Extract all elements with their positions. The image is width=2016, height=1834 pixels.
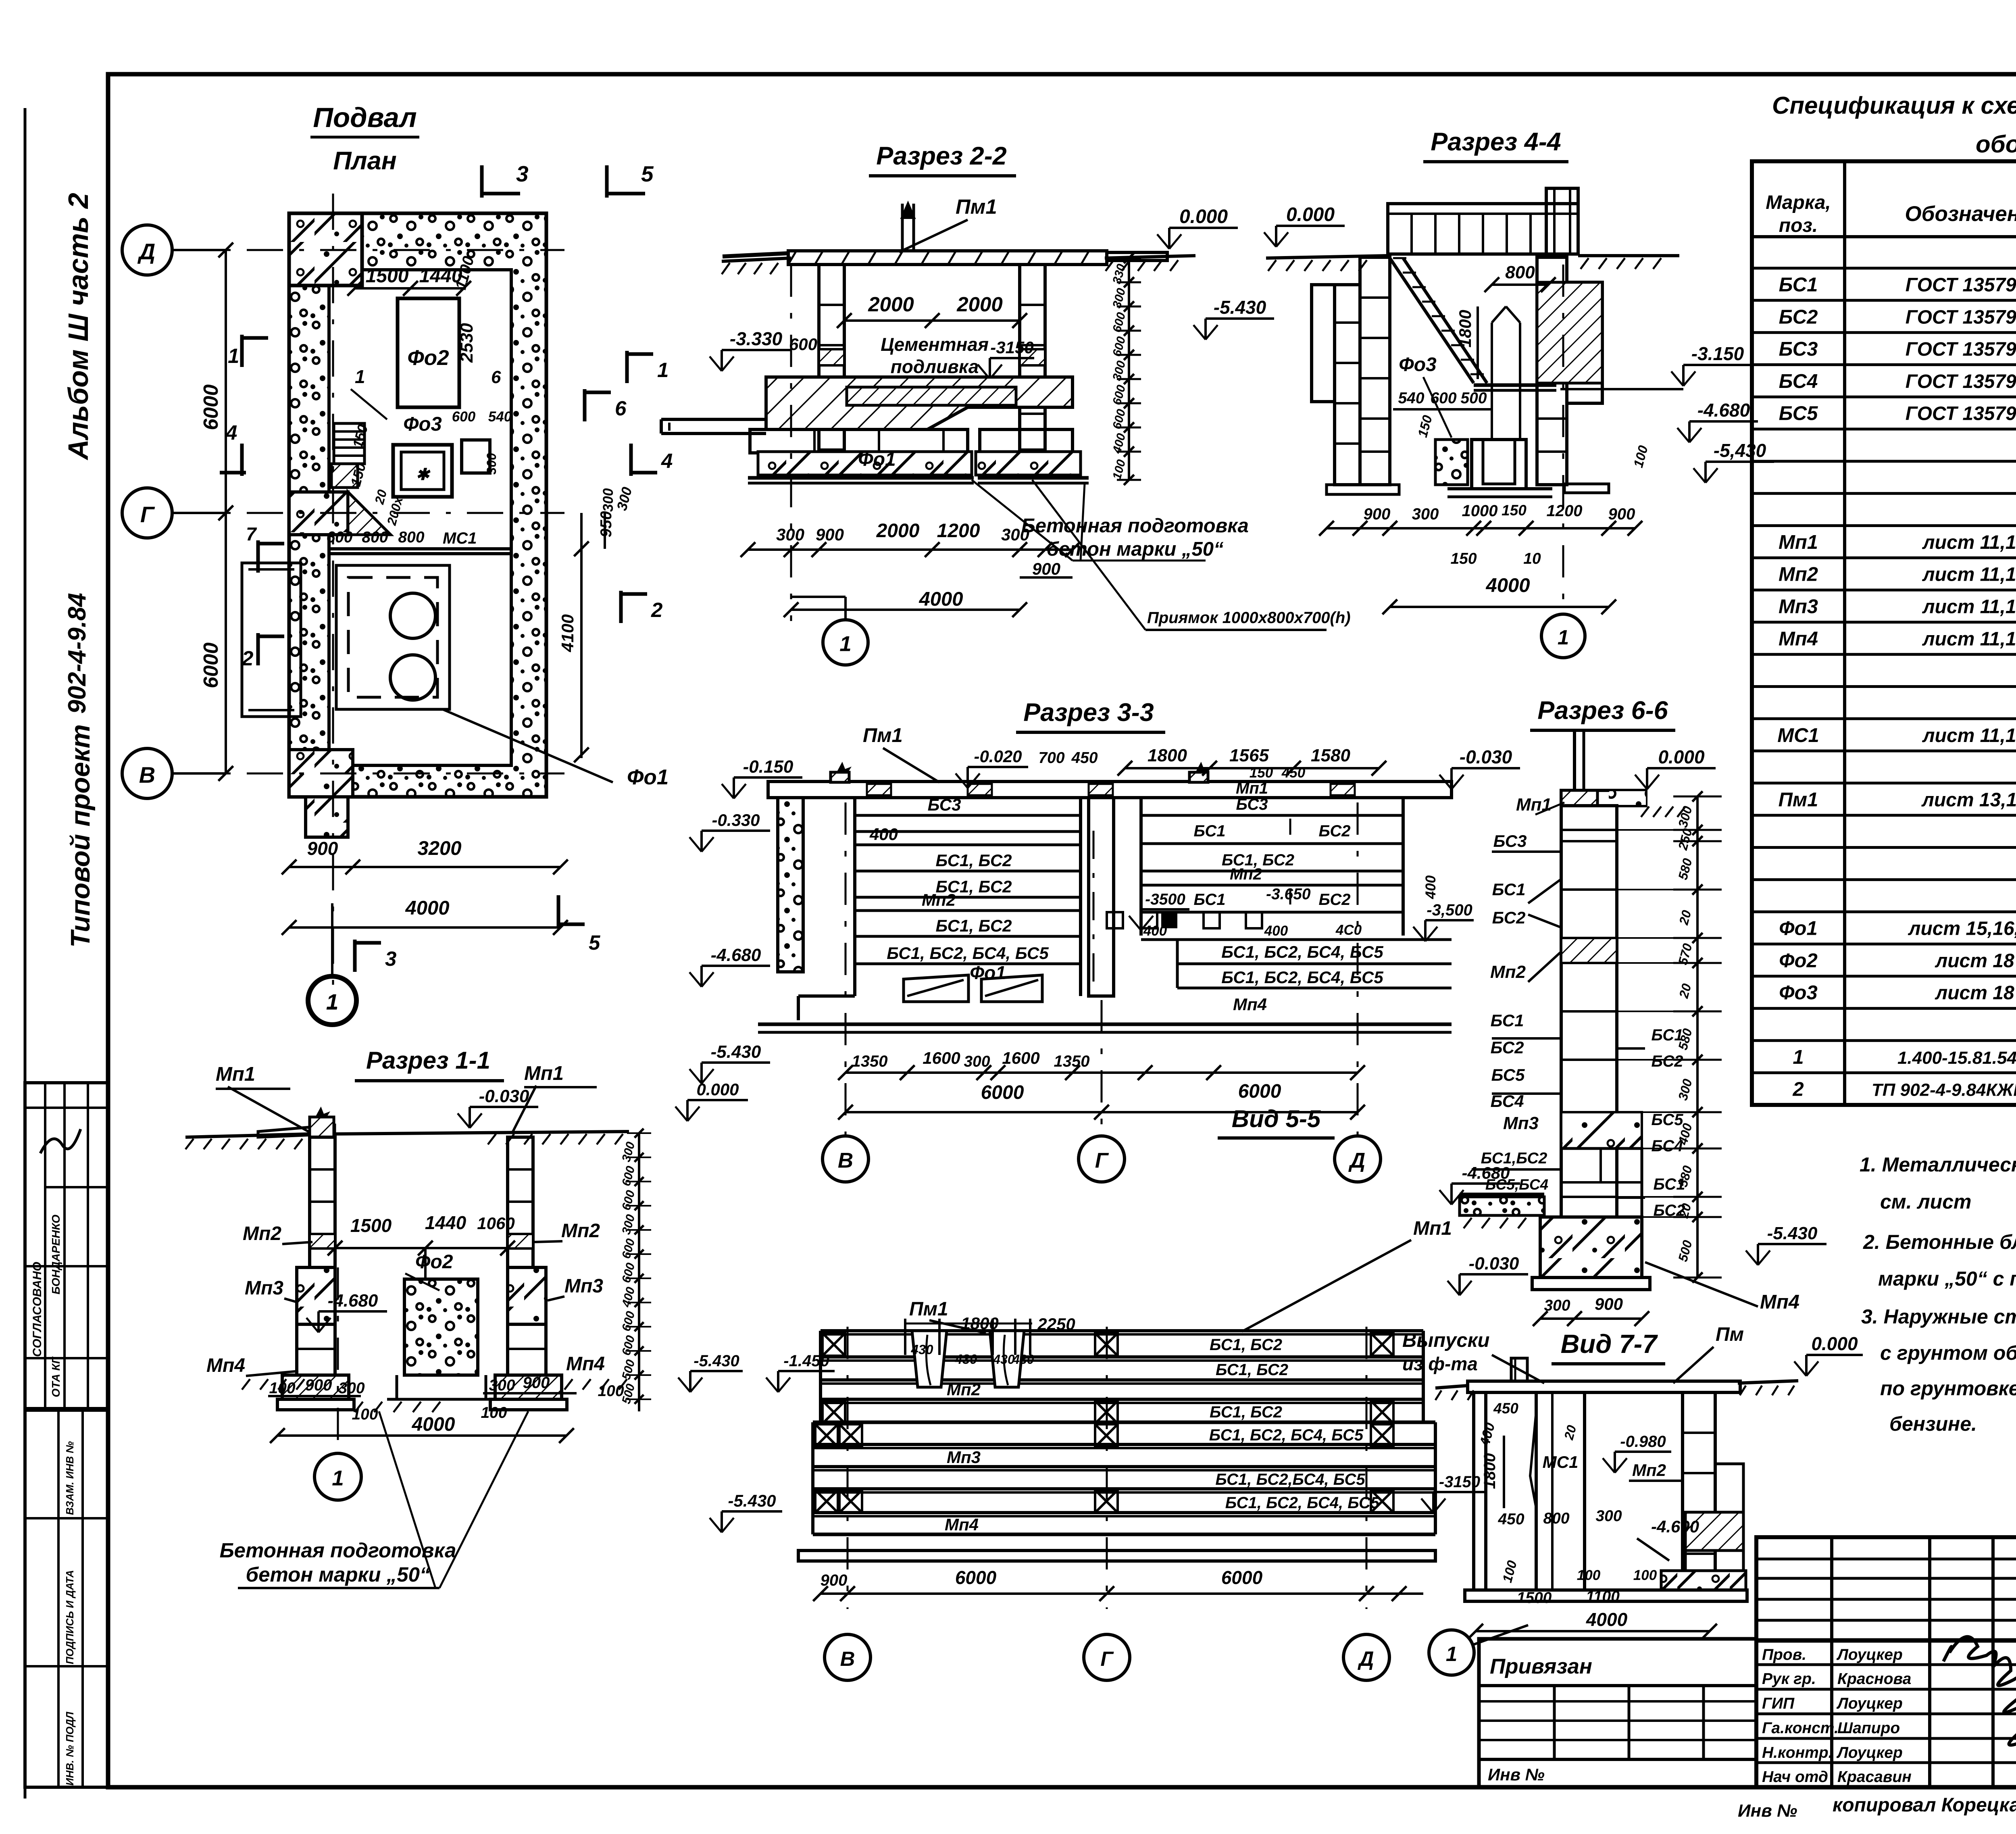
plan: axis bubbles Д Г В [122,225,172,275]
svg-text:450: 450 [1281,765,1306,781]
svg-text:Лоуцкер: Лоуцкер [1836,1744,1903,1761]
svg-text:лист 11,12: лист 11,12 [1922,725,2016,746]
svg-text:МС1: МС1 [443,529,477,547]
svg-text:-5.430: -5.430 [711,1042,761,1062]
svg-text:Мп1: Мп1 [1236,779,1268,797]
svg-text:430: 430 [910,1342,933,1357]
svg-text:600: 600 [789,335,817,354]
section 1-1: lower wall blocks [297,1267,335,1324]
svg-text:450: 450 [1493,1400,1518,1417]
svg-text:БС5,БС4: БС5,БС4 [1485,1176,1548,1193]
svg-text:4000: 4000 [918,588,963,610]
svg-text:800: 800 [362,529,388,546]
svg-text:ПОДПИСЬ И ДАТА: ПОДПИСЬ И ДАТА [64,1570,76,1664]
svg-text:-5.430: -5.430 [728,1491,776,1510]
svg-text:БС1: БС1 [1194,891,1226,909]
svg-text:Выпуски: Выпуски [1402,1330,1490,1351]
svg-text:ГОСТ 13579-78: ГОСТ 13579-78 [1906,339,2016,360]
svg-text:ГОСТ 13579-78: ГОСТ 13579-78 [1906,403,2016,425]
section 4-4: bottom axis bubble [1562,265,1564,615]
view 5-5: bottom slab [798,1551,1435,1561]
svg-text:150: 150 [1450,550,1477,567]
svg-text:950: 950 [598,511,615,537]
spec table grid [1752,161,2016,1105]
svg-text:Мп1: Мп1 [216,1063,255,1085]
svg-text:БС5: БС5 [1779,403,1818,425]
svg-text:4: 4 [225,421,237,444]
svg-text:6: 6 [615,397,627,420]
plan: bottom dims 900 3200 4000 [289,866,560,868]
svg-text:Разрез 6-6: Разрез 6-6 [1537,696,1668,725]
section 6-6: bottom dims [1540,1317,1642,1320]
svg-text:902-4-9.84: 902-4-9.84 [63,593,91,714]
left stamp box (ИНВ/ПОДПИСЬ) [25,1410,108,1787]
spec table first small row: бетонные блоки caption [1752,267,2016,270]
plan: inner cross wall at Г axis [329,547,511,550]
svg-text:Лоуцкер: Лоуцкер [1836,1646,1903,1663]
svg-text:БС3: БС3 [928,795,961,814]
svg-text:1: 1 [228,344,239,367]
svg-text:Мп2: Мп2 [1779,564,1818,586]
svg-text:Красавин: Красавин [1837,1768,1912,1786]
svg-text:Нач отд: Нач отд [1762,1768,1828,1786]
svg-text:600: 600 [452,409,476,425]
svg-text:Мп4: Мп4 [1760,1291,1799,1313]
svg-text:Г: Г [1100,1647,1114,1670]
svg-text:Марка,: Марка, [1766,192,1831,213]
section 3-3: right room rows [1139,798,1143,936]
svg-text:-3.650: -3.650 [1266,886,1311,903]
svg-text:Мп4: Мп4 [945,1515,979,1534]
svg-text:✱: ✱ [416,466,431,484]
section 1-1: bottom axis bubble [337,1267,339,1454]
svg-text:-0.330: -0.330 [712,811,760,829]
svg-text:-0.150: -0.150 [743,757,793,777]
plan: axis Д pier (hatched) [289,492,348,535]
svg-text:1600: 1600 [923,1048,960,1067]
svg-text:2000: 2000 [868,293,914,316]
svg-text:по грунтовке холодным биту: по грунтовке холодным битумом, разведенн… [1880,1377,2016,1400]
view 5-5: band rows (upper, x2035-3530) [821,1329,1423,1332]
section 4-4: ground lines [1266,256,1388,258]
svg-text:900: 900 [307,838,338,859]
section 6-6: hatched bands [1561,938,1617,963]
svg-text:900: 900 [821,1571,848,1589]
svg-text:100: 100 [269,1380,295,1397]
svg-text:0.000: 0.000 [696,1080,739,1099]
section 4-4: walls [1360,257,1390,485]
svg-text:МС1: МС1 [1543,1453,1579,1471]
svg-text:БС3: БС3 [1236,796,1268,813]
svg-text:1: 1 [355,366,365,387]
svg-text:Мп1: Мп1 [1779,531,1818,553]
svg-text:1: 1 [326,990,338,1014]
section 6-6: foundation block [1540,1217,1642,1278]
section 6-6: left floor stub [1460,1193,1544,1196]
plan: section marks [480,165,484,198]
svg-text:Разрез 4-4: Разрез 4-4 [1431,128,1561,156]
svg-text:с грунтом обмазать горячим: с грунтом обмазать горячим битумом за 2 … [1880,1342,2016,1364]
section 3-3: central pier [1089,798,1114,996]
svg-text:ГОСТ 13579-78: ГОСТ 13579-78 [1906,306,2016,328]
svg-text:1800: 1800 [1481,1453,1499,1489]
svg-text:БС4: БС4 [1779,371,1818,392]
svg-text:План: План [333,147,397,175]
svg-text:1600: 1600 [1002,1048,1039,1067]
svg-text:БС1, БС2, БС4, БС5: БС1, БС2, БС4, БС5 [1221,942,1383,961]
svg-text:900: 900 [1608,505,1635,523]
view 7-7: right stepped blocks [1715,1464,1743,1512]
svg-text:800: 800 [1505,263,1535,282]
section 1-1: ground line [185,1134,310,1137]
svg-text:1350: 1350 [1054,1052,1090,1070]
section 4-4: top slab with ribs [1388,204,1578,254]
section 6-6: right dim chain [1696,796,1699,1278]
svg-text:БС1, БС2, БС4, БС5: БС1, БС2, БС4, БС5 [887,944,1049,963]
svg-text:лист 11,12: лист 11,12 [1922,532,2016,553]
svg-text:Мп3: Мп3 [1779,596,1818,618]
svg-text:300: 300 [338,1380,364,1397]
svg-text:4000: 4000 [405,897,449,919]
svg-text:Мп2: Мп2 [1230,865,1262,883]
svg-text:БС1: БС1 [1779,274,1818,296]
svg-text:450: 450 [1071,749,1098,767]
svg-text:-0.030: -0.030 [1460,746,1512,767]
svg-text:Обозначение: Обозначение [1905,202,2016,226]
section 2-2: dims 2000 2000 [844,319,1020,322]
svg-text:540: 540 [488,409,512,425]
svg-text:-0.030: -0.030 [479,1086,529,1106]
view 7-7: bottom dim 4000 [1476,1630,1710,1632]
svg-text:150: 150 [1250,765,1273,781]
svg-text:Га.конст.: Га.конст. [1762,1719,1839,1737]
svg-text:БС1, БС2,БС4, БС5: БС1, БС2,БС4, БС5 [1215,1471,1365,1488]
svg-text:1350: 1350 [852,1052,888,1070]
svg-text:400: 400 [869,825,898,844]
svg-text:Фо2: Фо2 [407,346,449,370]
view 5-5: bottom dims [821,1592,1423,1595]
view 7-7: walls [1474,1392,1486,1590]
svg-text:1: 1 [839,632,851,656]
svg-text:из ф-та: из ф-та [1402,1353,1478,1374]
svg-text:см. лист: см. лист [1880,1190,1972,1213]
view 7-7: bottom slab [1465,1590,1747,1601]
svg-text:бензине.: бензине. [1889,1413,1977,1435]
svg-text:1800: 1800 [1148,746,1187,765]
svg-text:Фо3: Фо3 [1399,354,1437,375]
svg-text:Разрез 3-3: Разрез 3-3 [1023,698,1154,727]
svg-text:Мп4: Мп4 [1779,628,1818,650]
plan: vertical dimension 6000 x2 [225,250,227,773]
svg-text:2: 2 [651,598,662,621]
section 2-2: foundation mass [766,377,1073,429]
svg-text:лист 18: лист 18 [1935,982,2014,1004]
section 3-3: left room block rows [853,798,856,996]
svg-text:Подвал: Подвал [313,102,417,133]
svg-text:В: В [139,762,155,788]
section 4-4: diagonal shaft [1390,258,1474,383]
svg-text:Фо1: Фо1 [1779,918,1817,940]
svg-text:Привязан: Привязан [1490,1655,1592,1678]
svg-text:СОГЛАСОВАНО: СОГЛАСОВАНО [31,1262,44,1357]
svg-text:100: 100 [481,1404,507,1421]
section 4-4: inner pit [1474,383,1556,387]
svg-text:900: 900 [305,1376,332,1394]
svg-text:ВЗАМ. ИНВ №: ВЗАМ. ИНВ № [64,1441,76,1515]
svg-text:1580: 1580 [1311,746,1350,765]
svg-text:-5,430: -5,430 [1714,440,1766,461]
svg-text:6000: 6000 [199,642,222,688]
svg-text:900: 900 [523,1374,550,1392]
svg-text:Краснова: Краснова [1837,1670,1911,1688]
svg-text:-0.020: -0.020 [974,747,1022,766]
svg-text:БС1, БС2: БС1, БС2 [935,851,1012,870]
svg-text:800: 800 [1543,1510,1569,1527]
svg-text:5: 5 [589,931,600,954]
svg-text:лист 18: лист 18 [1935,950,2014,971]
svg-text:В: В [838,1149,853,1173]
left stamp box (СОГЛАСОВАНО) [25,1083,108,1409]
svg-text:Мп4: Мп4 [206,1355,245,1376]
svg-text:Разрез 1-1: Разрез 1-1 [366,1047,490,1074]
svg-text:ГОСТ 13579-78: ГОСТ 13579-78 [1906,371,2016,392]
plan: section mark 1 left [240,335,244,367]
svg-text:1. Металлическое ограждение,: 1. Металлическое ограждение, площадку и … [1860,1153,2016,1176]
svg-text:Мп1: Мп1 [524,1063,564,1084]
svg-text:Мп3: Мп3 [1503,1113,1539,1133]
plan: bottom axis bubble 1 [307,975,357,1025]
svg-text:-0.030: -0.030 [1469,1254,1519,1273]
svg-text:10: 10 [1523,550,1541,567]
svg-text:Мп3: Мп3 [564,1275,603,1297]
svg-text:Лоуцкер: Лоуцкер [1836,1695,1903,1712]
section 1-1: top plate [258,1125,335,1137]
section 1-1: bottom dims [268,1395,361,1397]
svg-text:Пм1: Пм1 [956,195,997,218]
svg-text:0.000: 0.000 [1811,1333,1858,1354]
привязан sub-table [1479,1639,1756,1787]
svg-text:Д: Д [1348,1149,1365,1173]
svg-text:1500: 1500 [1517,1589,1552,1607]
svg-text:-1.450: -1.450 [783,1352,829,1370]
svg-text:ОТА КГ: ОТА КГ [50,1356,62,1397]
svg-text:Мп4: Мп4 [566,1353,605,1375]
svg-text:400: 400 [1264,923,1288,939]
svg-text:500: 500 [1460,390,1487,407]
svg-text:ТП 902-4-9.84КЖИ. ЩМ2: ТП 902-4-9.84КЖИ. ЩМ2 [1872,1080,2016,1100]
svg-text:1800: 1800 [1456,310,1475,347]
svg-text:-5.430: -5.430 [694,1352,739,1370]
svg-text:Фо3: Фо3 [403,413,442,435]
svg-text:Приямок 1000х800х700(h): Приямок 1000х800х700(h) [1147,609,1351,627]
svg-text:600: 600 [1430,390,1456,407]
section 3-3: right lower rows [1177,938,1452,941]
svg-text:Фо1: Фо1 [858,449,896,470]
section 3-3: top slab [768,782,1452,798]
section 1-1: right wall column [508,1137,533,1267]
svg-text:150: 150 [1502,502,1527,519]
view 5-5: band rows (lower, wider x2016-3560) [813,1421,1435,1424]
svg-text:БС1: БС1 [1491,1011,1524,1030]
section 3-3: bottom slab [758,1023,1452,1026]
svg-text:0.000: 0.000 [1658,746,1705,767]
svg-text:100: 100 [1633,1567,1657,1583]
svg-text:1200: 1200 [1547,502,1583,520]
svg-text:4: 4 [661,449,673,472]
svg-text:700: 700 [1038,749,1064,767]
section 3-3: left wall [778,798,803,972]
svg-text:БС1, БС2: БС1, БС2 [1210,1403,1282,1421]
svg-text:Мп2: Мп2 [561,1220,600,1242]
svg-text:1565: 1565 [1229,746,1269,765]
section 4-4: left outer blocks [1335,285,1360,485]
svg-text:Фо2: Фо2 [1779,950,1817,971]
view 5-5: axis bubbles [825,1634,871,1680]
section 1-1: left wall column [310,1137,335,1267]
svg-text:БС2: БС2 [1779,306,1818,328]
svg-text:6: 6 [491,367,501,387]
svg-text:1: 1 [332,1467,344,1490]
svg-text:4000: 4000 [1485,575,1530,596]
svg-text:800: 800 [398,529,424,546]
svg-text:БС2: БС2 [1319,822,1351,840]
section 1-1: footing pads [282,1375,349,1399]
svg-text:6000: 6000 [981,1082,1024,1103]
section 6-6: lower wider blocks [1561,1148,1642,1217]
svg-text:Мп3: Мп3 [245,1278,283,1299]
svg-text:1: 1 [1446,1642,1457,1665]
svg-text:марки „50“ с перевязкой шво: марки „50“ с перевязкой швов не менее 30… [1878,1267,2016,1290]
svg-text:3. Наружные стены подвала и пр: 3. Наружные стены подвала и приямка, соп… [1861,1305,2016,1328]
svg-text:1060: 1060 [477,1214,514,1233]
svg-text:3: 3 [385,947,396,970]
plan: bottom-left pier (hatched) [289,750,353,797]
svg-text:Мп2: Мп2 [243,1223,281,1244]
svg-text:430: 430 [993,1352,1015,1367]
svg-text:3: 3 [516,161,529,186]
svg-text:Г: Г [1095,1149,1109,1173]
svg-text:2. Бетонные блоки укладывать: 2. Бетонные блоки укладывать на цементно… [1863,1231,2016,1253]
svg-text:Мп4: Мп4 [1233,995,1267,1014]
svg-text:БС2: БС2 [1652,1052,1683,1070]
section 2-2: bottom dims [748,548,1073,551]
svg-text:БС1, БС2, БС4, БС5: БС1, БС2, БС4, БС5 [1209,1426,1364,1444]
svg-text:4100: 4100 [558,614,577,652]
svg-text:100: 100 [598,1382,624,1400]
svg-text:900: 900 [1032,559,1060,578]
svg-text:Пм: Пм [1716,1324,1744,1345]
section 2-2: ground line and slab [722,258,791,261]
svg-text:540: 540 [1398,390,1424,407]
svg-text:Типовой проект: Типовой проект [65,724,96,948]
plan: lower room dashed pit with two tank circles (Фо1) [336,565,450,709]
svg-text:-5.430: -5.430 [1214,297,1266,318]
svg-text:ГИП: ГИП [1762,1695,1795,1712]
svg-text:Цементная: Цементная [881,334,989,355]
svg-text:Инв №: Инв № [1738,1801,1797,1821]
svg-text:-3,500: -3,500 [1427,901,1472,919]
svg-text:6000: 6000 [1221,1567,1263,1588]
svg-text:6000: 6000 [1238,1081,1281,1102]
svg-text:400: 400 [1423,875,1439,899]
svg-text:5: 5 [641,161,654,186]
svg-text:1200: 1200 [937,520,980,542]
svg-text:В: В [840,1647,855,1670]
svg-text:400: 400 [1143,923,1167,939]
view 5-5: axis dashed lines [847,1327,849,1609]
svg-text:Г: Г [140,502,155,527]
svg-text:2000: 2000 [956,293,1002,316]
svg-text:Мп2: Мп2 [1632,1461,1666,1480]
svg-text:Фо3: Фо3 [1779,982,1817,1004]
svg-text:Д: Д [137,239,155,264]
svg-text:Мп2: Мп2 [1490,962,1526,982]
svg-text:2530: 2530 [457,323,477,363]
svg-text:-5.430: -5.430 [1767,1223,1818,1243]
svg-text:1: 1 [657,358,669,381]
svg-text:1440: 1440 [425,1212,467,1233]
svg-text:Фо1: Фо1 [627,765,669,789]
svg-text:1.400-15.81.540-09: 1.400-15.81.540-09 [1897,1048,2016,1068]
svg-text:БС2: БС2 [1491,1038,1524,1057]
svg-text:2: 2 [1792,1079,1804,1100]
svg-text:300: 300 [1001,525,1029,544]
svg-text:1500: 1500 [366,265,409,287]
view 7-7: ground line [1435,1386,1468,1388]
svg-text:оборудование: оборудование [1976,131,2016,158]
plan: axis lines [173,249,564,251]
svg-text:300: 300 [964,1053,990,1070]
svg-text:Пров.: Пров. [1762,1646,1806,1663]
svg-text:-4.680: -4.680 [711,945,761,965]
svg-text:поз.: поз. [1779,215,1818,236]
svg-text:600: 600 [326,529,352,546]
svg-text:БС1, БС2, БС4, БС5: БС1, БС2, БС4, БС5 [1221,968,1383,987]
view 7-7: bubble 1 [1429,1630,1474,1675]
svg-text:Мп1: Мп1 [1516,795,1552,815]
svg-text:копировал Корецкая 12994-04: копировал Корецкая 12994-04 [1833,1794,2016,1816]
svg-text:900: 900 [1595,1294,1623,1313]
svg-text:лист 11,12: лист 11,12 [1922,564,2016,586]
section 1-1: ground hatch below [242,1379,250,1390]
svg-text:300: 300 [1544,1297,1570,1314]
svg-text:ИНВ. № ПОДЛ: ИНВ. № ПОДЛ [64,1711,76,1786]
svg-text:БС2: БС2 [1492,908,1526,927]
svg-text:БС3: БС3 [1493,832,1527,850]
section 3-3: Фо1 block with two pads [798,994,855,998]
svg-text:-4.680: -4.680 [1697,400,1750,421]
svg-text:450: 450 [1497,1511,1524,1528]
section 2-2: right dim chain [1128,258,1130,480]
svg-text:7: 7 [246,523,257,544]
svg-text:1500: 1500 [350,1215,392,1236]
svg-text:Бетонная подготовка: Бетонная подготовка [1021,515,1249,537]
section 4-4: bottom plates [1327,485,1399,494]
svg-text:Пм1: Пм1 [863,725,903,746]
svg-text:-3150: -3150 [1439,1473,1480,1491]
svg-text:-3.330: -3.330 [730,328,783,349]
svg-text:БОНДАРЕНКО: БОНДАРЕНКО [50,1215,62,1294]
section 2-2: bottom axis bubble [790,265,792,621]
svg-text:3200: 3200 [417,838,461,859]
svg-text:1100: 1100 [1586,1588,1620,1605]
svg-text:2250: 2250 [1037,1315,1075,1334]
svg-text:6000: 6000 [955,1567,997,1588]
section 6-6: wall column blocks [1561,806,1617,1217]
svg-text:-3150: -3150 [990,338,1033,357]
svg-text:Вид 5-5: Вид 5-5 [1232,1105,1321,1132]
svg-text:Мп1: Мп1 [1413,1218,1452,1239]
